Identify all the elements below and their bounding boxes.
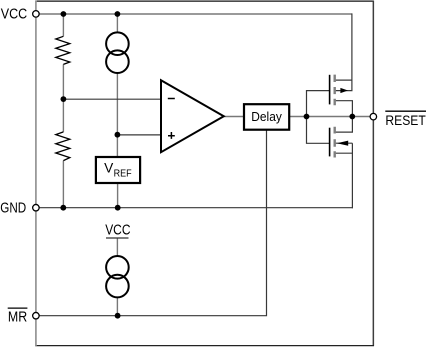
svg-text:RESET: RESET — [385, 112, 426, 128]
svg-text:MR: MR — [8, 308, 27, 325]
svg-text:REF: REF — [114, 169, 132, 180]
svg-text:GND: GND — [0, 200, 26, 217]
svg-text:V: V — [104, 160, 114, 175]
svg-text:Delay: Delay — [251, 109, 282, 124]
svg-text:VCC: VCC — [1, 5, 28, 22]
svg-text:VCC: VCC — [105, 222, 130, 239]
